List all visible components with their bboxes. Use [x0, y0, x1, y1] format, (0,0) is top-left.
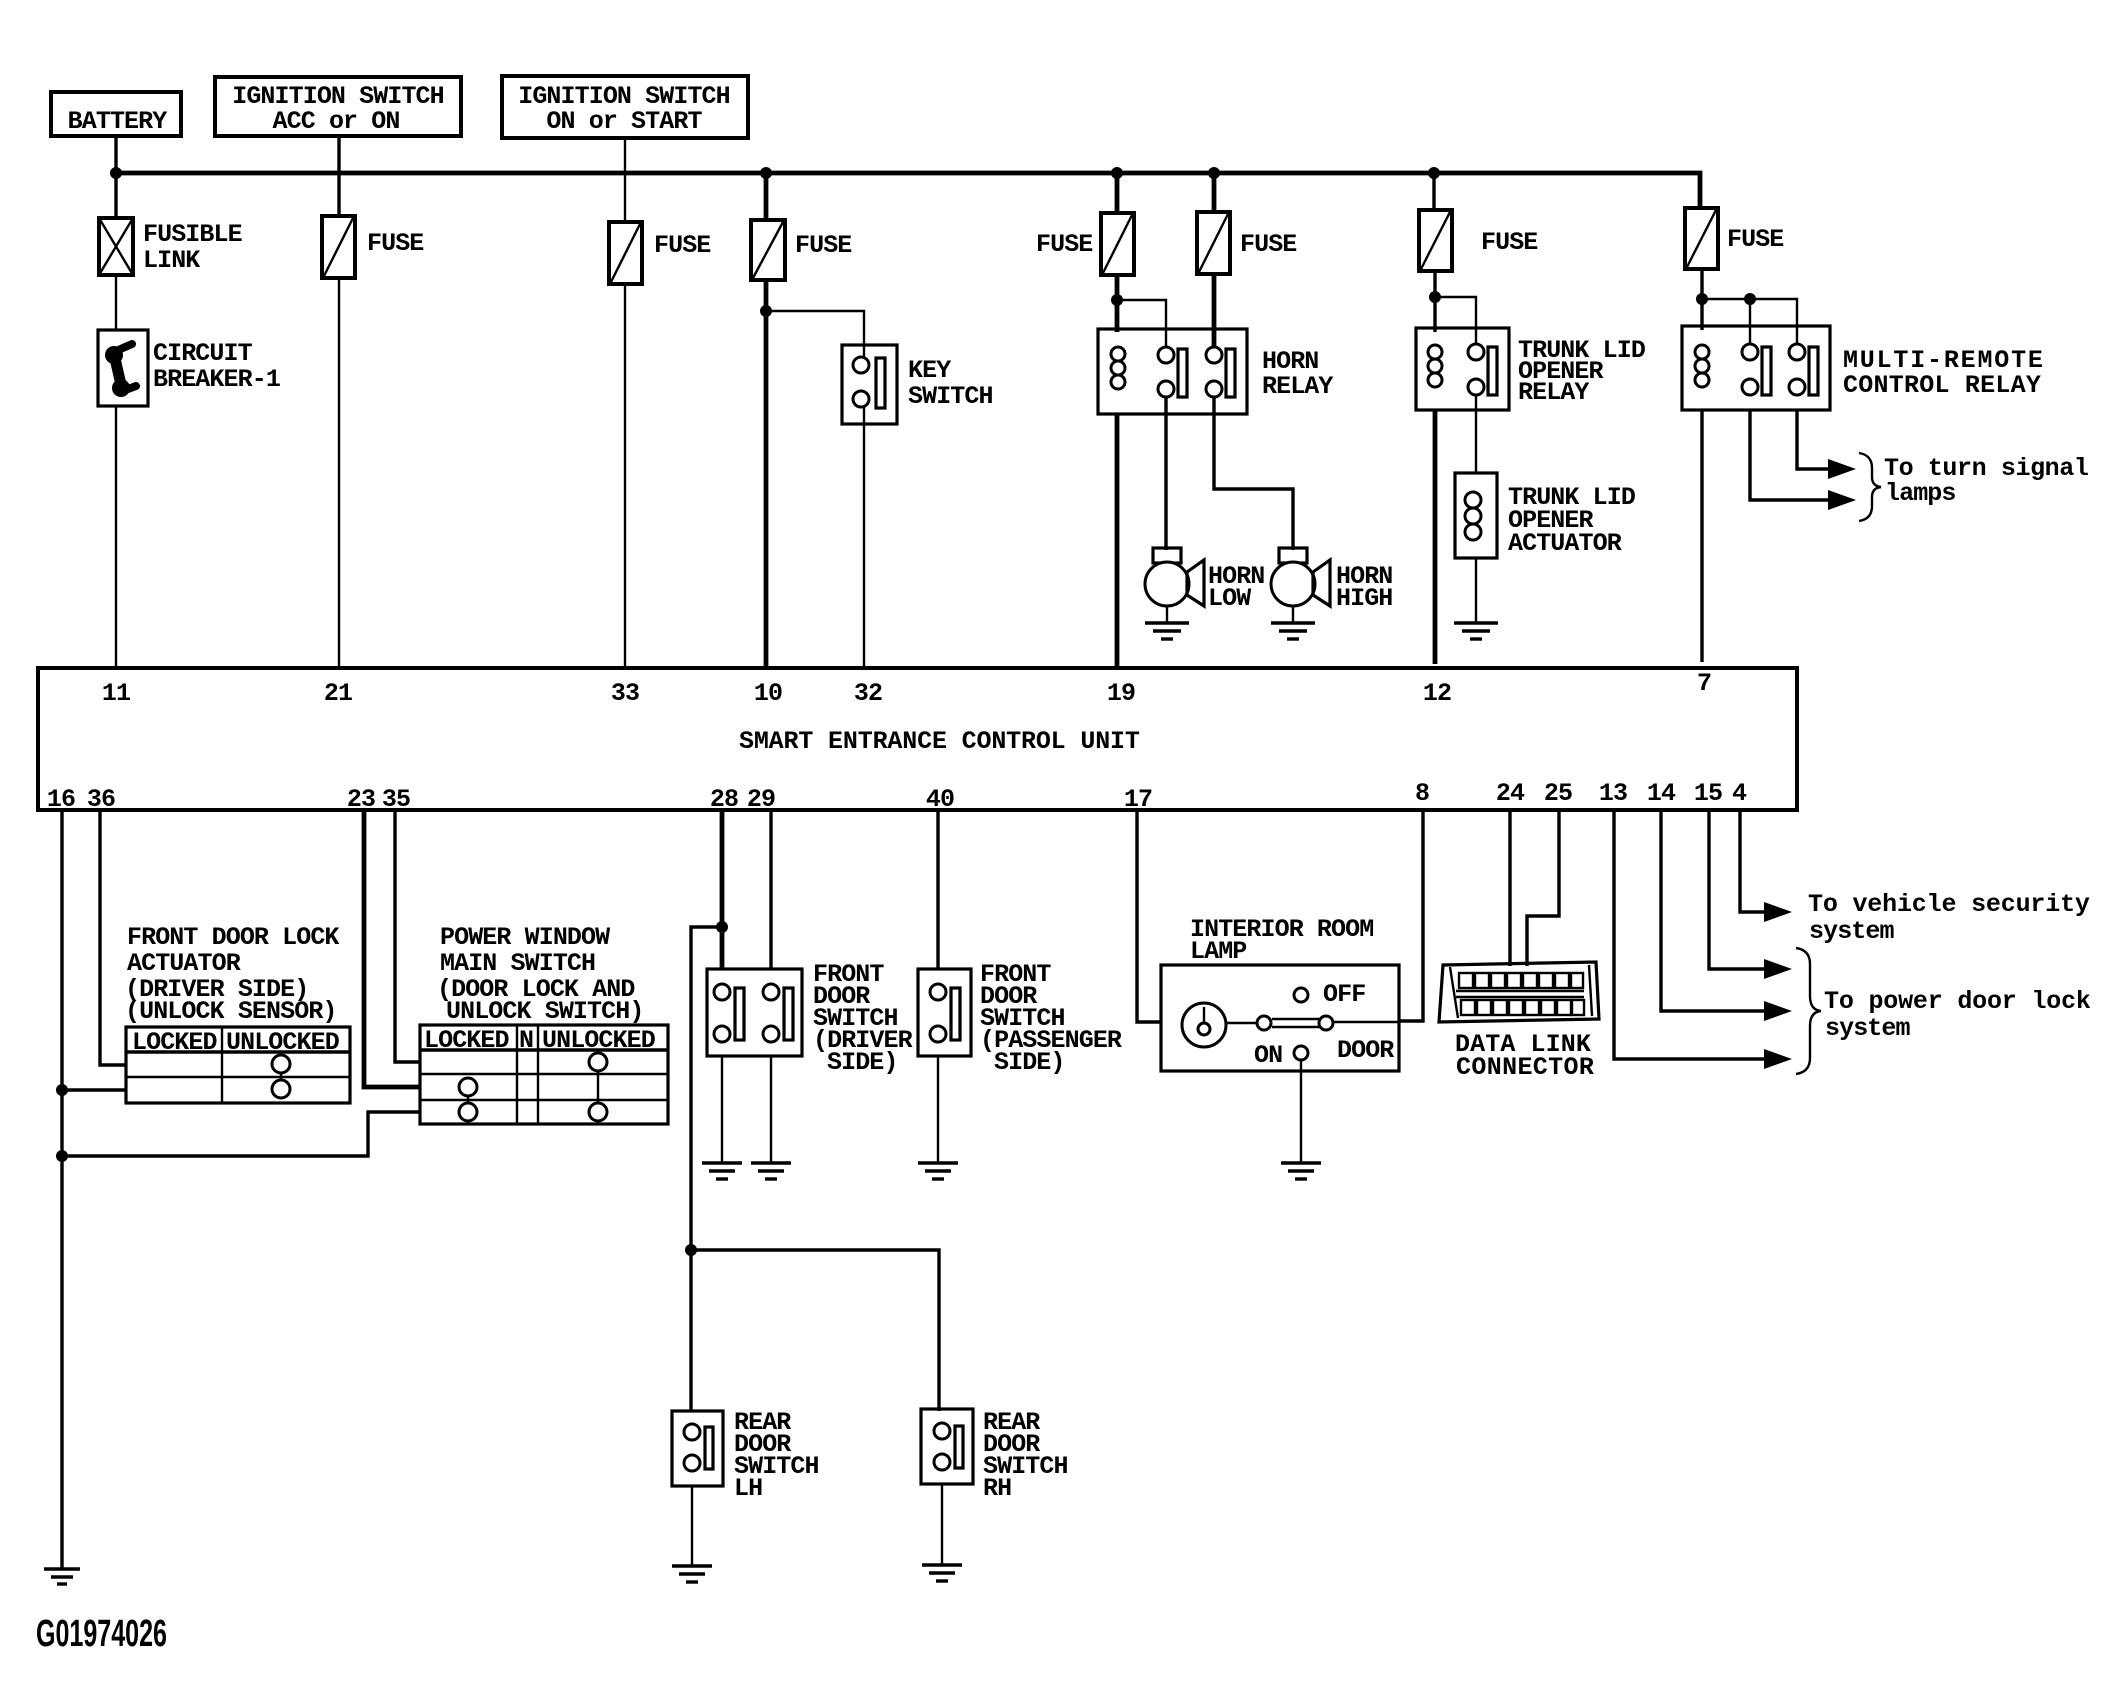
wire branch to multi relay contacts [1702, 299, 1797, 344]
wire pin 15 to power door lock arrow [1709, 810, 1764, 969]
label TRUNK LID OPENER RELAY [1518, 336, 1646, 407]
svg-text:16: 16 [47, 785, 75, 814]
label REAR DOOR SWITCH LH [734, 1408, 819, 1503]
wire pin 13 to power door lock arrow [1614, 810, 1764, 1059]
svg-text:15: 15 [1694, 779, 1722, 808]
svg-text:10: 10 [754, 679, 782, 708]
node bus/trunk-fuse junction [1428, 167, 1440, 179]
front door switch passenger side [918, 969, 971, 1056]
label KEY SWITCH [908, 356, 993, 411]
svg-text:HIGH: HIGH [1336, 584, 1392, 613]
node key switch branch junction [760, 305, 772, 317]
wire pin 40 to front door switch passenger [936, 810, 939, 969]
label TRUNK LID OPENER ACTUATOR [1508, 483, 1636, 558]
label FRONT DOOR SWITCH (PASSENGER SIDE) [980, 960, 1122, 1077]
svg-text:36: 36 [87, 785, 115, 814]
label FRONT DOOR LOCK ACTUATOR (DRIVER SIDE) (UNLOCK SENSOR) [125, 923, 339, 1026]
label REAR DOOR SWITCH RH [983, 1408, 1068, 1503]
svg-text:ON: ON [1254, 1041, 1282, 1070]
horn high [1271, 548, 1330, 606]
svg-text:40: 40 [926, 785, 954, 814]
label To turn signal lamps [1884, 454, 2088, 508]
wire pin 23 to power window switch row2 [364, 810, 420, 1087]
svg-text:MAIN SWITCH: MAIN SWITCH [440, 949, 595, 978]
label INTERIOR ROOM LAMP [1190, 915, 1373, 966]
wire trunk relay contact to actuator [1475, 395, 1477, 473]
smart entrance control unit box [38, 668, 1797, 810]
svg-text:11: 11 [102, 679, 130, 708]
svg-text:UNLOCK SWITCH): UNLOCK SWITCH) [446, 997, 643, 1026]
wire front door switch driver pin1 to ground [721, 1056, 723, 1163]
wire horn high to ground [1292, 606, 1294, 623]
fuse (multi-remote column) [1685, 208, 1718, 269]
svg-text:CONTROL RELAY: CONTROL RELAY [1843, 371, 2041, 400]
svg-text:system: system [1825, 1014, 1911, 1043]
label HORN LOW [1208, 562, 1264, 613]
wire ACC switch to fuse [337, 136, 340, 216]
node horn relay branch junction [1111, 294, 1123, 306]
wire pin 36 to door lock actuator row1 [100, 810, 126, 1065]
front door lock actuator table [126, 1027, 350, 1103]
wire fuse 10 to pin 10 [764, 280, 769, 667]
ignition switch ON or START box [502, 76, 748, 138]
svg-text:LOCKED: LOCKED [424, 1026, 510, 1055]
svg-text:LINK: LINK [143, 246, 200, 275]
node rear door switch RH junction [685, 1244, 697, 1256]
svg-text:ACC or ON: ACC or ON [273, 107, 400, 136]
wire pin 17 to interior room lamp [1137, 810, 1161, 1022]
wire pin 28 to front door switch driver [720, 810, 725, 969]
svg-text:FUSE: FUSE [1036, 230, 1092, 259]
rear door switch LH [672, 1411, 723, 1486]
node bus/fuse19 junction [1111, 167, 1123, 179]
wire bus to fuse 19 [1115, 173, 1120, 213]
wire lamp ON contact to ground [1300, 1060, 1302, 1163]
svg-text:FUSE: FUSE [795, 231, 851, 260]
svg-text:ACTUATOR: ACTUATOR [127, 949, 241, 978]
rear door switch RH [921, 1409, 973, 1484]
fuse (pin 10 column) [751, 220, 785, 280]
svg-text:LOCKED: LOCKED [132, 1028, 218, 1057]
wire battery to bus [114, 136, 117, 219]
svg-text:ACTUATOR: ACTUATOR [1508, 529, 1622, 558]
svg-text:4: 4 [1732, 779, 1747, 808]
svg-text:system: system [1809, 917, 1895, 946]
node bus/horn-fuse junction [1208, 167, 1220, 179]
wire pin 14 to power door lock arrow [1661, 810, 1764, 1011]
svg-text:To power door lock: To power door lock [1824, 987, 2091, 1016]
wire fuse 19 to horn relay coil [1115, 275, 1120, 332]
label POWER WINDOW MAIN SWITCH (DOOR LOCK AND UNLOCK SWITCH) [437, 923, 643, 1026]
svg-text:29: 29 [747, 785, 775, 814]
arrow to vehicle security [1764, 902, 1792, 922]
label HORN RELAY [1262, 347, 1333, 401]
label FRONT DOOR SWITCH (DRIVER SIDE) [813, 960, 913, 1077]
label MULTI-REMOTE CONTROL RELAY [1843, 346, 2042, 400]
svg-text:LOW: LOW [1208, 584, 1251, 613]
svg-text:CONNECTOR: CONNECTOR [1456, 1053, 1594, 1082]
svg-text:KEY: KEY [908, 356, 951, 385]
horn low [1145, 548, 1204, 606]
svg-text:FUSE: FUSE [1481, 228, 1537, 257]
interior room lamp box [1161, 965, 1399, 1071]
wire junction to rear door switch RH [691, 1250, 939, 1411]
node bus/fuse10 junction [760, 167, 772, 179]
svg-text:8: 8 [1415, 779, 1429, 808]
wire pin 8 to interior lamp right [1399, 810, 1423, 1021]
wire bus to horn fuse 2 [1212, 173, 1217, 212]
svg-text:N: N [519, 1026, 533, 1055]
ground actuator [1454, 623, 1498, 639]
svg-text:BATTERY: BATTERY [68, 107, 168, 136]
power window main switch table [420, 1025, 668, 1124]
arrow to turn signal 1 [1828, 459, 1856, 479]
fuse (pin 21 column) [322, 216, 355, 278]
battery source box [51, 92, 181, 136]
svg-text:SIDE): SIDE) [994, 1048, 1065, 1077]
svg-text:SWITCH: SWITCH [908, 382, 993, 411]
wire breaker to pin 11 [115, 406, 117, 670]
svg-text:LH: LH [734, 1474, 762, 1503]
svg-text:21: 21 [324, 679, 352, 708]
node multi relay contact1 junction [1744, 293, 1756, 305]
wire rear door switch LH to ground [691, 1486, 693, 1566]
svg-text:BREAKER-1: BREAKER-1 [153, 365, 280, 394]
wire horn fuse to contact 2 [1212, 274, 1217, 348]
wire front door switch passenger to ground [937, 1056, 939, 1163]
brace turn signal lamps [1859, 453, 1881, 521]
svg-text:lamps: lamps [1885, 479, 1956, 508]
svg-text:RELAY: RELAY [1518, 378, 1589, 407]
wire bus to fuse 10 [764, 173, 769, 220]
svg-text:POWER WINDOW: POWER WINDOW [440, 923, 610, 952]
wire bus to trunk fuse [1432, 173, 1435, 210]
svg-text:14: 14 [1647, 779, 1676, 808]
svg-text:17: 17 [1124, 785, 1152, 814]
trunk lid opener actuator [1455, 473, 1497, 558]
wire multi relay coil to pin 7 [1700, 410, 1703, 662]
wire fuse to pin 21 [338, 278, 340, 670]
wire horn relay coil to pin 19 [1115, 414, 1120, 668]
svg-text:FUSE: FUSE [654, 231, 710, 260]
wire front door switch driver pin2 to ground [770, 1056, 772, 1163]
ignition switch ACC or ON box [215, 77, 461, 136]
arrow power door lock 3 [1764, 1049, 1792, 1069]
wire pin 25 to data link connector [1527, 810, 1559, 966]
wire branch to rear door switches [691, 927, 722, 1411]
arrow power door lock 1 [1764, 959, 1792, 979]
svg-text:13: 13 [1599, 779, 1627, 808]
svg-text:19: 19 [1107, 679, 1135, 708]
wire branch to key switch [766, 311, 864, 358]
power bus wire [116, 173, 1700, 208]
svg-text:12: 12 [1423, 679, 1451, 708]
svg-text:FUSIBLE: FUSIBLE [143, 220, 242, 249]
svg-text:35: 35 [382, 785, 410, 814]
svg-text:CIRCUIT: CIRCUIT [153, 339, 253, 368]
svg-text:To vehicle security: To vehicle security [1808, 890, 2090, 919]
wire fuse to pin 33 [624, 284, 626, 668]
wire trunk relay coil to pin 12 [1433, 410, 1438, 664]
ground rear door switch LH [672, 1566, 712, 1582]
wire multi fuse to relay [1700, 269, 1703, 330]
wire junction to door lock actuator row2 [62, 1088, 126, 1091]
svg-text:7: 7 [1697, 669, 1711, 698]
arrow power door lock 2 [1764, 1001, 1792, 1021]
ground horn low [1145, 623, 1189, 639]
node pin16/power-window-row3 junction [56, 1150, 68, 1162]
svg-text:RH: RH [983, 1474, 1011, 1503]
svg-text:DOOR: DOOR [1337, 1036, 1394, 1065]
node rear-door branch junction [716, 921, 728, 933]
svg-text:FUSE: FUSE [1727, 225, 1783, 254]
fuse (pin 33 column) [609, 222, 642, 284]
svg-text:FRONT DOOR LOCK: FRONT DOOR LOCK [127, 923, 339, 952]
node battery/bus junction [110, 167, 122, 179]
fusible link [99, 218, 133, 275]
node trunk relay branch junction [1429, 291, 1441, 303]
wire pin 16 down to ground [60, 810, 63, 1569]
svg-text:28: 28 [710, 785, 738, 814]
wire branch to horn relay contact 1 [1117, 300, 1166, 348]
key switch [842, 345, 897, 424]
wire multi relay contact2 to turn signal arrow [1797, 410, 1828, 469]
ground front door switch driver 2 [751, 1163, 791, 1179]
ground interior lamp [1281, 1163, 1321, 1179]
svg-text:UNLOCKED: UNLOCKED [542, 1026, 656, 1055]
svg-text:FUSE: FUSE [367, 229, 423, 258]
fuse (trunk lid opener) [1419, 210, 1452, 271]
wire horn relay contact1 to horn low [1164, 397, 1167, 550]
wire pin 35 to power window switch row1 [395, 810, 420, 1062]
label CIRCUIT BREAKER-1 [153, 339, 280, 394]
svg-text:32: 32 [854, 679, 882, 708]
ground rear door switch RH [922, 1565, 962, 1581]
node pin16/actuator-row2 junction [56, 1084, 68, 1096]
wire pin 24 to data link connector [1508, 810, 1511, 966]
fuse (pin 19 / horn relay coil) [1101, 213, 1134, 275]
label HORN HIGH [1336, 562, 1392, 613]
svg-text:SMART ENTRANCE CONTROL UNIT: SMART ENTRANCE CONTROL UNIT [739, 727, 1140, 756]
svg-text:FUSE: FUSE [1240, 230, 1296, 259]
horn relay [1098, 329, 1247, 414]
circuit breaker CB-1 [98, 330, 148, 406]
svg-text:UNLOCKED: UNLOCKED [226, 1028, 340, 1057]
wire ON/START switch to fuse [624, 138, 626, 222]
data link connector [1439, 962, 1599, 1022]
fuse (horn high/low feed) [1197, 212, 1230, 274]
ground horn high [1271, 623, 1315, 639]
svg-text:SIDE): SIDE) [827, 1048, 898, 1077]
node multi relay coil junction [1696, 293, 1708, 305]
wire horn low to ground [1166, 606, 1168, 623]
wire actuator to ground [1475, 558, 1477, 623]
wire fusible link to circuit breaker [115, 275, 117, 330]
svg-text:OFF: OFF [1323, 980, 1365, 1009]
wire trunk fuse to relay coil [1433, 271, 1436, 332]
label To power door lock system [1824, 987, 2091, 1043]
wire branch to trunk relay contact [1435, 297, 1476, 344]
brace power door lock system [1796, 948, 1821, 1074]
wire pin 29 to front door switch driver [769, 810, 772, 969]
label DATA LINK CONNECTOR [1455, 1030, 1594, 1082]
svg-text:G01974026: G01974026 [36, 1613, 167, 1655]
svg-text:ON or START: ON or START [546, 107, 702, 136]
wire key switch to pin 32 [863, 407, 865, 667]
svg-text:LAMP: LAMP [1190, 937, 1246, 966]
wire multi relay contact1 to turn signal arrow [1750, 410, 1828, 500]
arrow to turn signal 2 [1828, 490, 1856, 510]
label FUSIBLE LINK [143, 220, 242, 275]
trunk lid opener relay [1416, 328, 1509, 410]
ground front door switch passenger [918, 1163, 958, 1179]
svg-text:33: 33 [611, 679, 639, 708]
wire rear door switch RH to ground [941, 1484, 943, 1565]
svg-text:25: 25 [1544, 779, 1572, 808]
front door switch driver side [707, 969, 802, 1056]
ground pin 16 [44, 1569, 80, 1584]
svg-text:23: 23 [347, 785, 375, 814]
ground front door switch driver 1 [702, 1163, 742, 1179]
label To vehicle security system [1808, 890, 2090, 946]
wire horn relay contact2 to horn high [1214, 397, 1293, 550]
svg-text:RELAY: RELAY [1262, 372, 1333, 401]
wire branch down to contact1 [1749, 299, 1751, 344]
svg-text:24: 24 [1496, 779, 1525, 808]
wire junction to power window switch row3 [62, 1112, 420, 1156]
multi-remote control relay [1682, 326, 1830, 410]
wire pin 4 to vehicle security arrow [1740, 810, 1764, 912]
svg-text:(UNLOCK SENSOR): (UNLOCK SENSOR) [125, 997, 337, 1026]
